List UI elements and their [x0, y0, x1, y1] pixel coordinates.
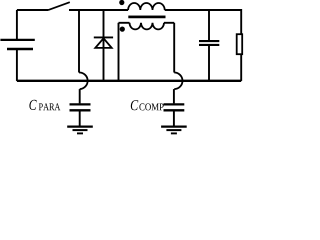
- ground (left): [67, 127, 93, 134]
- wire top rail left: [17, 9, 49, 11]
- inductor L2 secondary winding: [119, 23, 175, 30]
- wire top rail right: [165, 10, 242, 34]
- capacitor C1 (output): [199, 10, 219, 81]
- wire branch to CPARA (lower): [79, 89, 81, 103]
- wire branch to CPARA (upper): [78, 10, 80, 73]
- resistor R1 (load): [237, 34, 243, 81]
- ground (right): [161, 127, 187, 134]
- capacitor CCOMP: [164, 104, 185, 125]
- wire bottom rail: [17, 80, 241, 82]
- battery B1: [0, 10, 34, 81]
- inductor L1 primary winding: [128, 3, 165, 10]
- wire hop over bottom rail (right): [174, 73, 182, 90]
- switch S1 blade: [49, 2, 70, 10]
- diode D1: [94, 10, 113, 81]
- label CPARA: [29, 100, 36, 110]
- wire secondary left leg: [118, 23, 120, 81]
- wire secondary right leg: [173, 23, 175, 73]
- wire hop over bottom rail (left): [79, 72, 88, 89]
- node dot secondary winding polarity: [120, 27, 125, 32]
- transformer core: [128, 16, 165, 19]
- label CCOMP: [131, 100, 138, 110]
- capacitor CPARA: [70, 104, 91, 125]
- wire top rail middle: [69, 9, 128, 11]
- node dot primary winding polarity: [119, 0, 124, 5]
- wire branch to CCOMP (lower): [173, 89, 175, 103]
